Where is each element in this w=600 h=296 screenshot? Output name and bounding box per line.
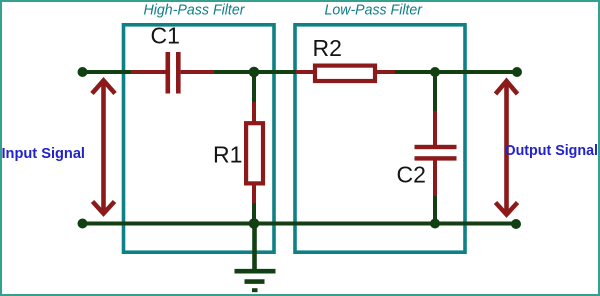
resistor R2 xyxy=(315,66,375,81)
node: bottom junction under R1 xyxy=(249,218,260,229)
svg-text:Output Signal: Output Signal xyxy=(505,143,599,159)
high-pass filter box xyxy=(124,25,275,252)
wire: green from R2 to node B xyxy=(395,70,435,74)
capacitor C1 xyxy=(166,52,181,94)
wire: R1 top lead (red) xyxy=(252,102,256,123)
svg-text:C2: C2 xyxy=(397,162,426,188)
wire: C2 bottom lead (red) xyxy=(433,160,437,197)
svg-text:R2: R2 xyxy=(313,35,342,61)
ground xyxy=(235,223,276,290)
wire: node A down green xyxy=(252,72,256,103)
wire: R2 right lead (red) xyxy=(377,70,395,74)
wire: C2 top lead (red) xyxy=(433,111,437,146)
input signal arrow (double headed) xyxy=(92,81,115,214)
wire: C1 right lead (red) xyxy=(181,70,214,74)
wire: green from node B to output node xyxy=(435,70,517,74)
wire: green from C1 to node A xyxy=(214,70,254,74)
node B junction (R2/C2) xyxy=(430,67,440,77)
svg-text:R1: R1 xyxy=(213,142,242,168)
output signal arrow (double headed) xyxy=(496,81,518,215)
wire: R2 left lead (red) xyxy=(296,70,313,74)
wire: C1 left lead (red) xyxy=(131,70,166,74)
low-pass filter box xyxy=(295,25,465,252)
wire: node B down green xyxy=(433,72,437,112)
node: input top terminal xyxy=(78,67,88,77)
svg-text:Input Signal: Input Signal xyxy=(2,146,86,162)
wire: green from node A to low-pass box edge xyxy=(254,70,296,74)
wire: green from R1 to bottom rail xyxy=(252,203,256,223)
capacitor C2 xyxy=(415,145,457,161)
wire: R1 bottom lead (red) xyxy=(252,184,256,204)
node: output top terminal xyxy=(512,67,522,77)
node: input bottom terminal xyxy=(78,219,88,229)
node: bottom junction under C2 xyxy=(430,219,440,229)
resistor R1 xyxy=(246,123,263,183)
node: output bottom terminal xyxy=(511,219,521,229)
wire: green from C2 to bottom rail xyxy=(433,196,437,223)
wire: bottom rail green xyxy=(82,222,516,226)
node A junction (C1/R1/R2) xyxy=(249,67,260,78)
wire: top left green from input node to C1 lead xyxy=(82,70,132,74)
svg-text:C1: C1 xyxy=(151,23,180,49)
svg-text:Low-Pass Filter: Low-Pass Filter xyxy=(325,3,424,19)
svg-text:High-Pass Filter: High-Pass Filter xyxy=(144,3,246,19)
